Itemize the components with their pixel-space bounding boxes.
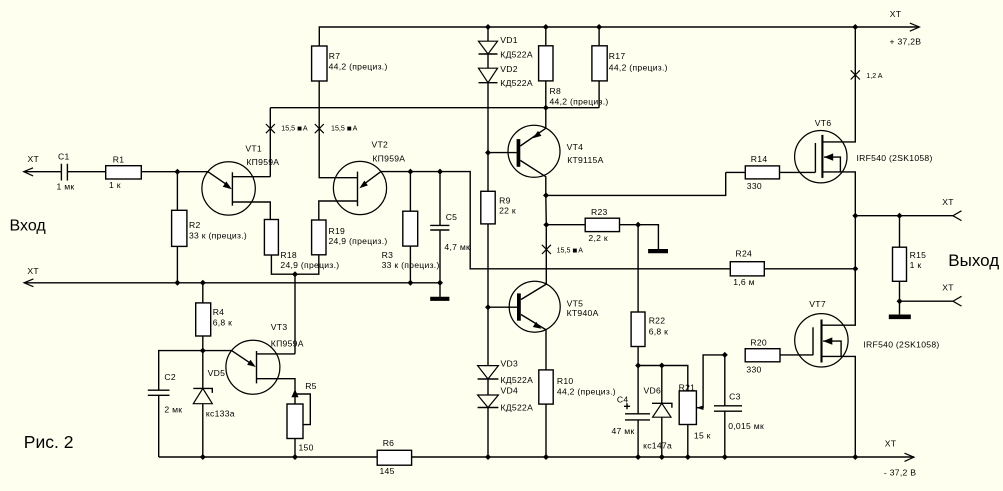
wire VT3 drain: [257, 353, 296, 355]
svg-text:VT3: VT3: [271, 322, 288, 332]
diode VD3 KD522A: [487, 307, 489, 365]
node junction R4 bottom: [200, 348, 206, 354]
svg-text:R3: R3: [382, 250, 394, 260]
node junction R15 bottom: [897, 298, 903, 304]
resistor R15: [899, 216, 901, 248]
svg-text:1,2 A: 1,2 A: [866, 72, 882, 80]
node junction R22 bottom: [635, 363, 641, 369]
resistor R17: [598, 27, 600, 46]
zener VD6 ks147a: [661, 366, 663, 404]
wire VT2 gate feedback node: [381, 172, 730, 269]
wire VD2 to VT4 base node: [487, 83, 489, 153]
wire R1 to VT1 gate: [141, 171, 208, 173]
capacitor C5: [439, 172, 441, 226]
node junction VT7 source rail: [852, 454, 858, 460]
wire R7 bottom to VT2 drain: [319, 81, 357, 178]
svg-text:XT: XT: [942, 197, 954, 207]
svg-text:КД522А: КД522А: [500, 49, 533, 59]
svg-text:R7: R7: [329, 51, 341, 61]
node junction R8 top rail: [543, 24, 549, 30]
resistor R23: [546, 224, 585, 226]
svg-text:КТ9115А: КТ9115А: [567, 155, 603, 165]
svg-text:R18: R18: [280, 250, 297, 260]
resistor R20: [745, 349, 780, 362]
svg-text:Выход: Выход: [948, 251, 999, 270]
svg-text:VD2: VD2: [500, 64, 518, 74]
svg-text:VD3: VD3: [501, 359, 519, 369]
resistor R9: [487, 153, 489, 192]
node junction C4 bottom rail: [635, 454, 641, 460]
resistor R5 trimmer: [291, 389, 298, 397]
wire ammeter cross 15,5mA VT5: [542, 245, 551, 254]
svg-text:24,9 (прециз.): 24,9 (прециз.): [280, 260, 339, 270]
svg-text:R6: R6: [383, 438, 395, 448]
node junction R3 bottom: [407, 280, 413, 286]
wire VT1 drain up and across: [232, 108, 270, 177]
wire collector column down to VT5: [545, 195, 548, 284]
transistor VT6 IRF540: [795, 131, 847, 183]
svg-text:- 37,2 В: - 37,2 В: [884, 468, 916, 478]
node junction R18R19: [292, 271, 298, 277]
wire horizontal y108 to R8 R17: [270, 107, 599, 109]
svg-text:R4: R4: [213, 307, 225, 317]
svg-text:VT1: VT1: [245, 143, 262, 153]
wire ammeter cross 1,2A: [851, 70, 860, 79]
svg-text:VT5: VT5: [567, 299, 584, 309]
svg-text:145: 145: [380, 466, 395, 476]
wire R18 bottom link R19: [271, 255, 318, 274]
svg-text:VD6: VD6: [644, 386, 662, 396]
resistor R6: [377, 450, 411, 465]
svg-text:кс133а: кс133а: [206, 409, 235, 419]
svg-text:1,6 м: 1,6 м: [733, 277, 755, 287]
node junction VD6 top: [659, 363, 665, 369]
node junction R23 right: [635, 222, 641, 228]
svg-text:C1: C1: [58, 152, 70, 162]
svg-text:R9: R9: [499, 196, 511, 206]
svg-text:R5: R5: [305, 381, 317, 391]
svg-text:КД522А: КД522А: [500, 78, 533, 88]
svg-text:4,7 мк: 4,7 мк: [444, 242, 470, 252]
wire ammeter cross VT2 drain 15,5mA: [315, 124, 324, 133]
transistor VT3 KP959A: [203, 350, 232, 352]
ground right of R23: [638, 225, 658, 250]
svg-text:VD1: VD1: [500, 35, 518, 45]
transistor VT4 KT9115A pnp: [508, 125, 560, 177]
node junction R3 top: [407, 169, 413, 175]
svg-text:R23: R23: [591, 207, 608, 217]
transistor VT2 KP959A: [333, 161, 386, 214]
svg-text:VT6: VT6: [815, 118, 832, 128]
node junction VT4 base: [485, 150, 491, 156]
node XT input arrow lower: [24, 279, 33, 287]
svg-text:44,2 (прециз.): 44,2 (прециз.): [329, 61, 388, 71]
svg-text:0,015 мк: 0,015 мк: [728, 421, 764, 431]
ground below R15: [899, 301, 901, 314]
svg-text:VT2: VT2: [372, 140, 389, 150]
node junction C3 bottom rail: [722, 454, 728, 460]
node junction C5 bottom: [437, 280, 443, 286]
svg-text:IRF540 (2SK1058): IRF540 (2SK1058): [857, 153, 933, 163]
wire ammeter cross VT1 drain 15,5mA: [266, 124, 275, 133]
diode VD2 KD522A: [487, 54, 489, 68]
svg-text:VT4: VT4: [567, 142, 584, 152]
node XT arrow bottom right: [905, 453, 914, 461]
node junction R20 left: [722, 352, 728, 358]
svg-text:+ 37,2В: + 37,2В: [890, 37, 922, 47]
node junction VT5 base: [485, 304, 491, 310]
svg-text:XT: XT: [942, 283, 954, 293]
wire bottom -37V rail: [159, 456, 378, 458]
svg-text:C4: C4: [617, 395, 629, 405]
svg-text:R22: R22: [649, 316, 666, 326]
svg-text:C3: C3: [729, 392, 741, 402]
svg-text:XT: XT: [890, 9, 902, 19]
wire VT4 collector to R14: [546, 172, 726, 195]
svg-text:КД522А: КД522А: [501, 403, 534, 413]
transistor VT7 IRF540: [795, 314, 848, 367]
svg-text:VT7: VT7: [809, 299, 826, 309]
node XT arrow top right: [910, 23, 920, 31]
node junction VD6 bottom rail: [659, 454, 665, 460]
svg-text:33 к (прециз.): 33 к (прециз.): [189, 230, 247, 240]
resistor R4: [202, 283, 204, 303]
transistor VT5 KT940A npn: [509, 281, 560, 332]
svg-text:44,2 (прециз.): 44,2 (прециз.): [609, 63, 668, 73]
capacitor C2: [148, 390, 170, 395]
resistor R10: [539, 370, 553, 404]
svg-text:C2: C2: [164, 372, 176, 382]
svg-text:R20: R20: [750, 338, 767, 348]
svg-text:A: A: [303, 125, 308, 133]
node junction R23 left: [543, 222, 549, 228]
resistor R3: [409, 172, 411, 212]
svg-text:A: A: [578, 247, 583, 255]
svg-text:R14: R14: [751, 154, 768, 164]
wire VT2 source to R19: [319, 201, 358, 220]
svg-text:КП959А: КП959А: [271, 339, 304, 349]
resistor R1: [106, 166, 142, 179]
svg-text:150: 150: [299, 443, 314, 453]
wire output node: [855, 215, 953, 217]
svg-text:2,2 к: 2,2 к: [588, 233, 608, 243]
svg-text:24,9 (прециз.): 24,9 (прециз.): [329, 236, 388, 246]
diode VD1 KD522A: [487, 27, 489, 41]
svg-text:R19: R19: [329, 226, 346, 236]
capacitor C1: [61, 164, 67, 181]
zener VD5 ks133a: [202, 351, 204, 389]
capacitor C4 polar: [637, 366, 639, 414]
svg-text:R2: R2: [189, 220, 201, 230]
resistor R22: [637, 225, 639, 312]
svg-text:15 к: 15 к: [694, 431, 711, 441]
node junction R21 bottom rail: [685, 454, 691, 460]
svg-text:1 к: 1 к: [910, 260, 922, 270]
resistor R2: [176, 172, 178, 211]
svg-text:C5: C5: [446, 212, 458, 222]
svg-text:44,2 (прециз.): 44,2 (прециз.): [557, 387, 616, 397]
svg-text:R17: R17: [609, 51, 626, 61]
wire VT3 source to R5: [257, 379, 296, 404]
svg-text:R10: R10: [557, 376, 574, 386]
svg-text:330: 330: [746, 365, 761, 375]
svg-text:1 к: 1 к: [109, 180, 121, 190]
svg-text:Вход: Вход: [10, 218, 47, 235]
svg-text:2 мк: 2 мк: [164, 405, 182, 415]
wire output column to VT7: [854, 216, 856, 323]
node XT output fork lower: [900, 300, 953, 302]
node junction VD1 top rail: [485, 24, 491, 30]
svg-text:IRF540 (2SK1058): IRF540 (2SK1058): [863, 340, 939, 350]
resistor R19: [312, 220, 326, 255]
node junction VD4 bottom rail: [485, 454, 491, 460]
wire to C2: [159, 351, 203, 391]
svg-text:15,5: 15,5: [557, 247, 571, 255]
node junction R17 top rail: [596, 24, 602, 30]
svg-text:6,8 к: 6,8 к: [213, 318, 233, 328]
svg-text:КД522А: КД522А: [501, 375, 534, 385]
svg-text:XT: XT: [28, 154, 40, 164]
node junction R1/R2: [174, 169, 180, 175]
node junction C5 top: [437, 169, 443, 175]
resistor R8: [545, 27, 547, 46]
svg-text:КТ940А: КТ940А: [567, 308, 599, 318]
svg-text:47 мк: 47 мк: [612, 426, 635, 436]
node junction R8 bottom: [543, 105, 549, 111]
node junction VT4 collector: [543, 192, 549, 198]
resistor R14: [726, 171, 746, 173]
svg-text:15,5: 15,5: [281, 125, 295, 133]
svg-text:R24: R24: [736, 249, 753, 259]
svg-text:22 к: 22 к: [499, 206, 516, 216]
svg-text:R8: R8: [550, 86, 562, 96]
wire feedback R24: [730, 262, 764, 276]
svg-text:КП959А: КП959А: [372, 154, 405, 164]
node junction R2 bottom: [174, 280, 180, 286]
svg-text:6,8 к: 6,8 к: [649, 327, 669, 337]
wire C1 to R1: [67, 171, 105, 173]
wire top +37V rail: [319, 27, 919, 46]
wire down to VT3 drain: [294, 274, 296, 354]
svg-text:15,5: 15,5: [331, 125, 345, 133]
resistor R21 trimmer: [679, 391, 696, 425]
node XT output fork upper: [953, 211, 962, 221]
diode VD4 KD522A: [487, 379, 489, 395]
svg-text:кс147а: кс147а: [643, 441, 672, 451]
wire R22 bottom to R21: [638, 366, 688, 391]
node junction VD5 bottom rail: [200, 454, 206, 460]
node junction R4 top: [200, 280, 206, 286]
svg-text:A: A: [353, 125, 358, 133]
svg-text:XT: XT: [27, 266, 39, 276]
svg-text:R15: R15: [910, 250, 927, 260]
wire input lower bus: [24, 282, 440, 284]
wire VT1 source to R18: [232, 202, 270, 220]
transistor VT1 KP959A: [202, 162, 255, 215]
node junction R10 bottom rail: [543, 454, 549, 460]
wire input to C1: [24, 171, 62, 173]
svg-text:R1: R1: [113, 155, 125, 165]
svg-text:VD5: VD5: [208, 368, 226, 378]
node XT input arrow: [24, 168, 33, 176]
node junction output left: [852, 213, 858, 219]
svg-text:330: 330: [747, 181, 762, 191]
node junction R5 bottom rail: [292, 454, 298, 460]
resistor R7: [312, 46, 327, 81]
svg-text:R21: R21: [679, 383, 696, 393]
svg-text:VD4: VD4: [501, 386, 519, 396]
svg-text:XT: XT: [885, 439, 897, 449]
node junction R24 right output: [852, 266, 858, 272]
svg-text:КП959А: КП959А: [246, 157, 279, 167]
node junction VT6 top rail: [852, 24, 858, 30]
capacitor C3: [724, 355, 726, 406]
svg-text:1 мк: 1 мк: [57, 182, 75, 192]
node junction R15 top: [897, 213, 903, 219]
svg-text:Рис. 2: Рис. 2: [24, 432, 74, 452]
ground under C5: [439, 283, 441, 297]
resistor R18: [264, 220, 278, 256]
